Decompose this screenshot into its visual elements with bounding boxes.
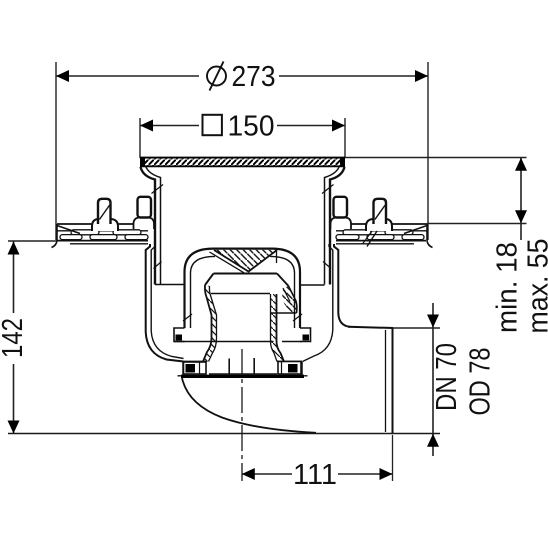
bell leg break marks: [183, 314, 302, 321]
svg-text:142: 142: [0, 318, 29, 358]
upper wall right (with lip from strip): [322, 167, 345, 285]
dimension 142 line: [8, 242, 20, 434]
dimension 111 extension line right (pipe end extended): [392, 435, 394, 481]
clamp nut right: [331, 197, 352, 229]
bell right leg bracket: [282, 328, 311, 342]
funnel left wall (hatched): [203, 285, 217, 362]
DN/OD extension line top (pipe top): [393, 327, 440, 329]
ring interior ticks: [229, 358, 254, 376]
min/max extension line bottom (flange level): [427, 223, 527, 225]
ring bolt left: [184, 362, 207, 374]
flange left plate: [52, 224, 156, 248]
dome hatched wedge (funnel flare section): [210, 250, 278, 273]
dimension min18 max55 line: [515, 158, 527, 241]
outlet pipe end: [386, 328, 393, 434]
svg-text:150: 150: [228, 111, 275, 143]
dimension d273 extension line right: [427, 62, 429, 240]
svg-text:min. 18: min. 18: [492, 242, 524, 333]
svg-text:111: 111: [293, 459, 337, 491]
outlet pipe top: [348, 327, 393, 328]
bell left leg bracket: [174, 328, 274, 342]
svg-text:max. 55: max. 55: [523, 239, 548, 334]
dimension 142 extension line top: [8, 240, 57, 242]
upper wall left (with lip from strip): [141, 167, 164, 285]
ring bolt right: [278, 362, 301, 375]
clamp nut left: [134, 197, 155, 229]
clamp bolt post right: [363, 199, 393, 247]
dimension sq150 square symbol: [203, 115, 222, 135]
skirt bottom edge left: [155, 284, 185, 286]
frame strip (grate frame, hatched): [140, 157, 345, 167]
bowl wall right (to ring and to pipe): [303, 244, 351, 362]
skirt bottom edge right: [300, 284, 325, 286]
funnel right wall (hatched): [271, 294, 285, 362]
dimension d273 extension line left: [55, 62, 57, 240]
floor line / bottom extension: [8, 433, 440, 435]
dimension sq150 line: [140, 120, 345, 132]
dimension DN70 OD78 line: [427, 303, 439, 456]
funnel right flare (hatched): [271, 286, 297, 313]
dimension d273 line: [56, 70, 428, 82]
funnel rim: [205, 274, 289, 287]
dimension sq150 extension line left: [139, 118, 141, 158]
funnel floor line: [211, 293, 270, 295]
dimension sq150 extension line right: [344, 118, 346, 158]
elbow outer curve: [182, 378, 316, 433]
min/max extension line top (frame level): [345, 157, 527, 159]
bell dome inner: [191, 256, 295, 328]
center axis line: [241, 349, 243, 481]
svg-text:OD 78: OD 78: [465, 348, 497, 416]
bell dome outer: [185, 249, 301, 328]
flange right plate: [329, 224, 433, 248]
dimension d273 diameter symbol: [207, 62, 226, 91]
svg-text:DN 70: DN 70: [431, 343, 463, 411]
svg-text:273: 273: [232, 61, 276, 93]
clamp ring: [178, 362, 308, 377]
bowl wall left: [146, 244, 184, 362]
dimension 111 line: [242, 468, 393, 480]
clamp bolt post left: [92, 199, 118, 231]
